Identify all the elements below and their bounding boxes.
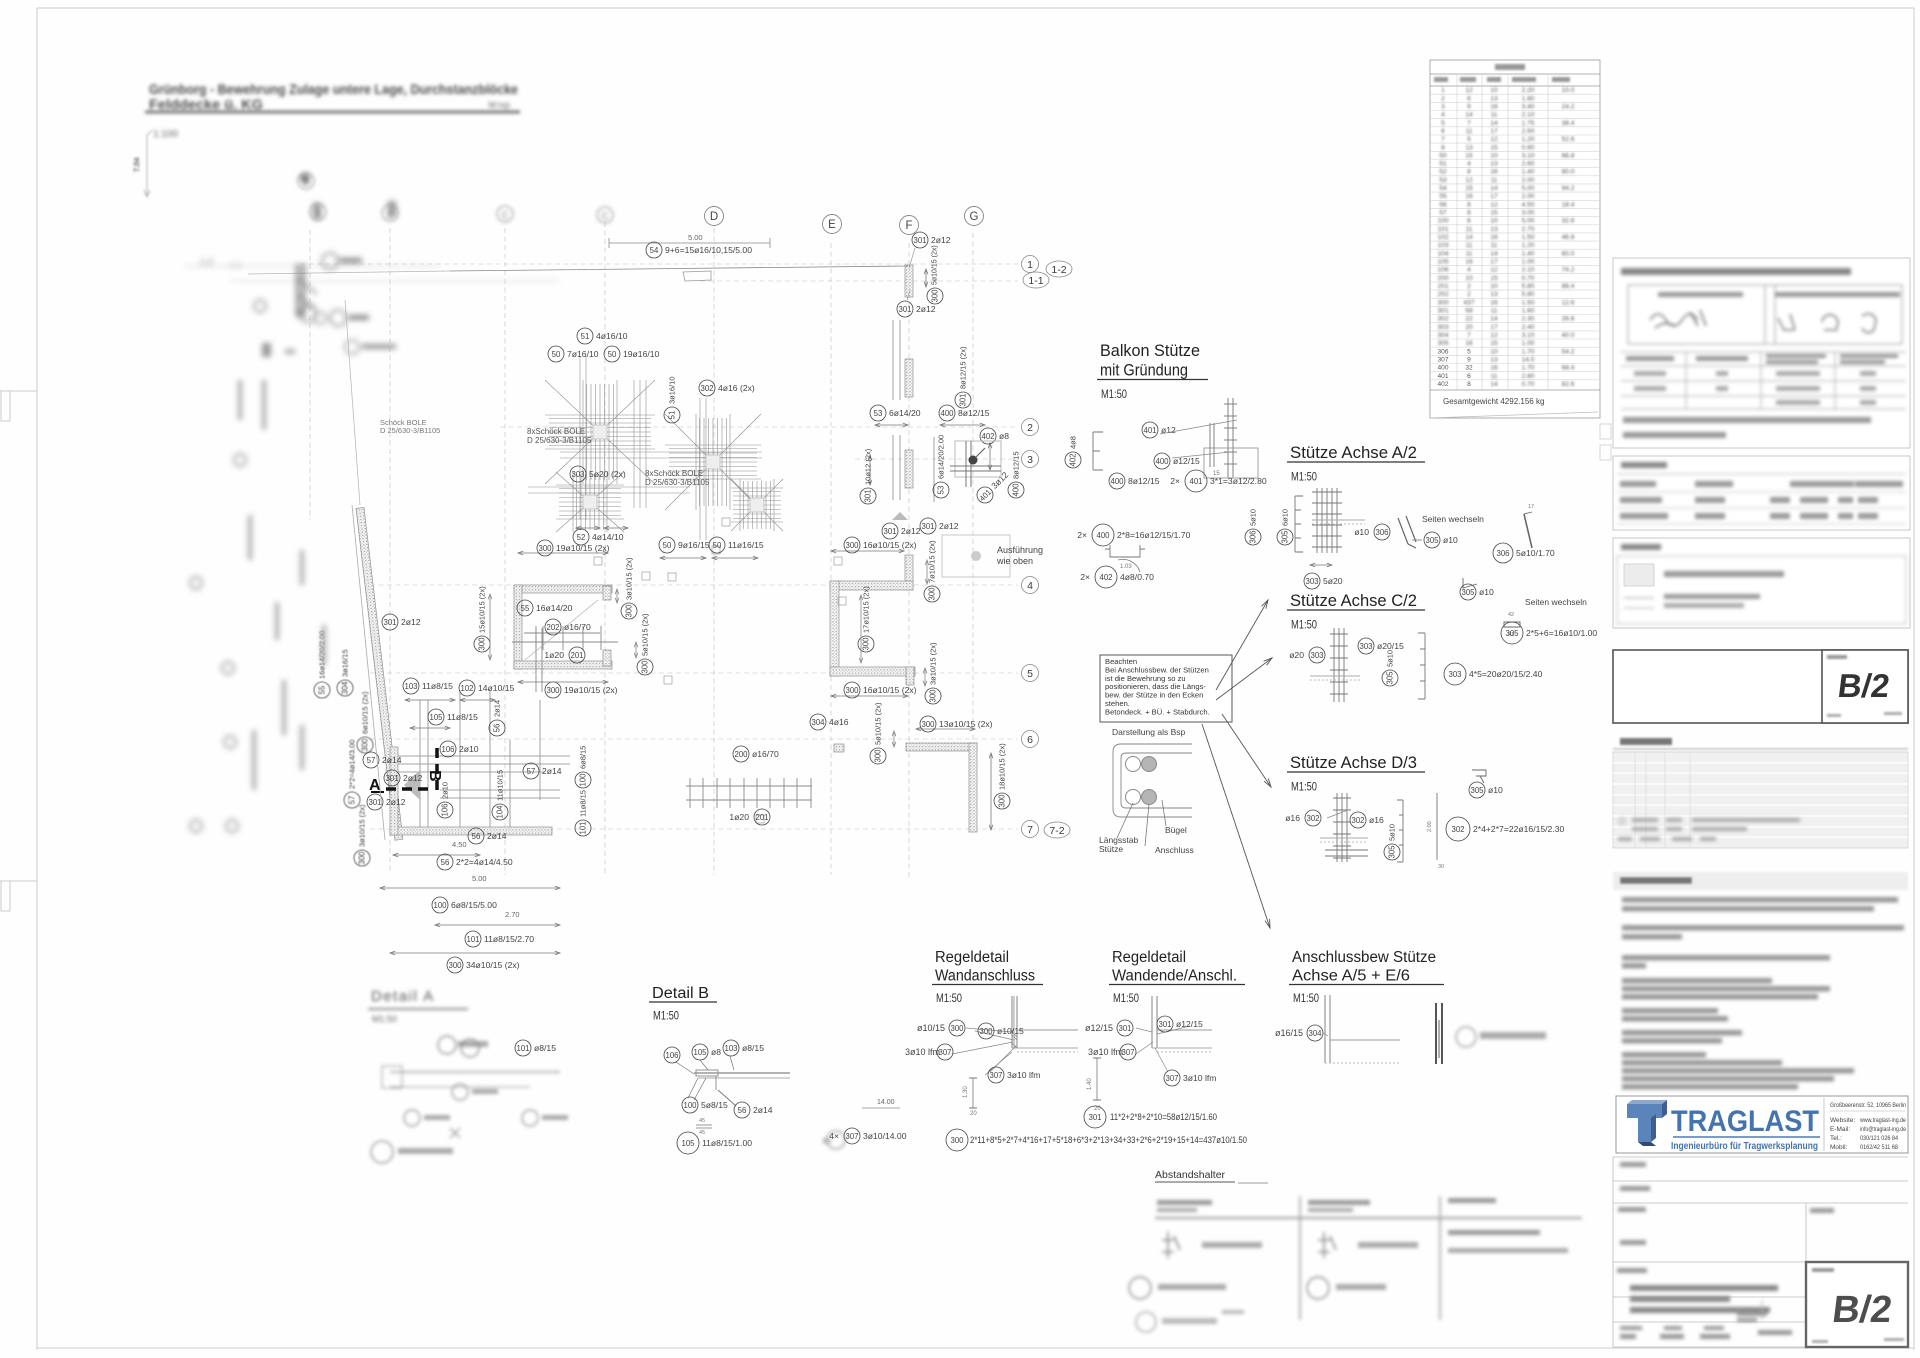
svg-text:9: 9 [1467,357,1471,364]
svg-text:400: 400 [1437,365,1448,372]
svg-text:Wandanschluss: Wandanschluss [935,968,1035,985]
svg-text:Detail A: Detail A [371,988,435,1005]
svg-text:1.00: 1.00 [1522,259,1535,266]
svg-text:14: 14 [1490,250,1498,257]
svg-text:1.70: 1.70 [1522,365,1535,372]
svg-text:5.80: 5.80 [1522,283,1535,290]
svg-text:ø8: ø8 [999,431,1009,441]
svg-text:1ø20: 1ø20 [729,812,749,822]
svg-text:300: 300 [1437,299,1448,306]
svg-text:19ø10/15 (2x): 19ø10/15 (2x) [564,685,618,695]
svg-text:1.03: 1.03 [1120,564,1132,570]
svg-text:303: 303 [1359,642,1372,651]
svg-text:16: 16 [1465,340,1473,347]
svg-text:19ø10/15 (2x): 19ø10/15 (2x) [556,543,610,553]
svg-text:106: 106 [441,745,454,754]
svg-text:16: 16 [1490,103,1498,110]
svg-text:101: 101 [466,935,479,944]
svg-text:10: 10 [1490,348,1498,355]
svg-text:105: 105 [1437,259,1448,266]
svg-text:50: 50 [1439,152,1447,159]
svg-text:302: 302 [1451,825,1464,834]
svg-text:ø8: ø8 [711,1047,721,1057]
svg-text:1.75: 1.75 [1522,120,1535,127]
svg-text:Website:: Website: [1830,1117,1855,1124]
svg-text:46.8: 46.8 [1562,234,1575,241]
svg-text:10: 10 [1490,283,1498,290]
svg-text:300: 300 [845,541,859,550]
svg-text:400: 400 [1012,483,1021,497]
svg-text:305: 305 [1505,629,1519,638]
svg-text:20: 20 [970,1111,977,1117]
svg-text:11: 11 [1491,308,1498,315]
svg-text:4ø8: 4ø8 [1069,436,1078,449]
svg-text:54.2: 54.2 [1562,348,1575,355]
svg-text:M1:50: M1:50 [1291,620,1317,632]
svg-text:8: 8 [1467,169,1471,176]
svg-text:2*4+2*7=22ø16/15/2.30: 2*4+2*7=22ø16/15/2.30 [1473,824,1564,834]
svg-text:53: 53 [937,486,946,495]
svg-text:106: 106 [665,1051,678,1060]
svg-text:305: 305 [1437,340,1448,347]
svg-text:13ø10/15 (2x): 13ø10/15 (2x) [939,719,993,729]
svg-text:15: 15 [1213,471,1220,477]
svg-text:B/2: B/2 [1830,1288,1894,1331]
svg-text:11ø8/15/1.00: 11ø8/15/1.00 [702,1138,752,1148]
svg-text:307: 307 [845,1132,858,1141]
svg-text:55: 55 [521,604,530,613]
svg-text:6ø10: 6ø10 [1281,509,1290,526]
svg-text:1.00: 1.00 [1522,340,1535,347]
svg-text:wie oben: wie oben [996,556,1033,566]
svg-text:M1:50: M1:50 [653,1011,679,1023]
svg-text:3.10: 3.10 [1522,152,1535,159]
svg-text:3ø10/15 (2x): 3ø10/15 (2x) [358,804,367,847]
svg-text:E: E [828,219,836,231]
svg-text:ø20: ø20 [1289,650,1304,660]
svg-text:400: 400 [1110,477,1124,486]
svg-text:ø16/70: ø16/70 [564,622,591,632]
svg-text:4ø16: 4ø16 [829,717,849,727]
svg-text:2ø14: 2ø14 [542,766,562,776]
svg-text:17: 17 [1490,193,1498,200]
svg-text:3*1=3ø12/2.80: 3*1=3ø12/2.80 [1210,476,1267,486]
svg-text:101: 101 [1437,226,1448,233]
svg-text:45: 45 [699,1130,705,1136]
svg-text:305: 305 [1470,786,1484,795]
svg-text:mit Gründung: mit Gründung [1100,362,1188,380]
svg-text:52.6: 52.6 [1562,136,1575,143]
svg-text:10ø12 (2x): 10ø12 (2x) [864,448,873,485]
svg-text:307: 307 [1437,357,1448,364]
svg-text:94.2: 94.2 [1562,185,1575,192]
svg-text:26.8: 26.8 [1562,316,1575,323]
svg-text:3: 3 [1441,103,1445,110]
svg-text:030/121 026 84: 030/121 026 84 [1860,1135,1898,1142]
svg-text:303: 303 [1305,577,1318,586]
svg-text:6: 6 [1027,734,1033,746]
svg-text:2*11+8*5+2*7+4*16+17+5*18+6*3+: 2*11+8*5+2*7+4*16+17+5*18+6*3+2*13+34+33… [970,1135,1247,1145]
svg-text:Abstandshalter: Abstandshalter [1155,1169,1226,1181]
svg-text:M1:50: M1:50 [1291,472,1317,484]
svg-text:14ø10/15: 14ø10/15 [478,683,515,693]
svg-text:2.40: 2.40 [1522,324,1535,331]
svg-text:5ø10/15 (2x): 5ø10/15 (2x) [932,245,939,285]
svg-text:300: 300 [862,637,871,651]
svg-text:6ø10/15 (2x): 6ø10/15 (2x) [361,691,370,734]
svg-text:TRAGLAST: TRAGLAST [1671,1105,1819,1138]
svg-text:24.2: 24.2 [1562,103,1575,110]
svg-text:16: 16 [1490,365,1498,372]
svg-text:2ø14: 2ø14 [382,755,402,765]
svg-text:Mobil:: Mobil: [1830,1144,1848,1151]
svg-text:0.70: 0.70 [1522,381,1535,388]
svg-text:18ø10/15 (2x): 18ø10/15 (2x) [998,743,1007,790]
svg-text:4ø8/0.70: 4ø8/0.70 [1120,572,1154,582]
svg-text:M1:50: M1:50 [1113,993,1139,1005]
svg-text:9: 9 [1467,103,1471,110]
svg-text:14: 14 [1490,185,1498,192]
svg-text:300: 300 [931,289,940,303]
svg-text:17: 17 [1490,324,1498,331]
svg-text:8xSchöck BOLE: 8xSchöck BOLE [527,427,585,436]
svg-text:102: 102 [460,684,473,693]
svg-text:11: 11 [1466,226,1473,233]
svg-text:15: 15 [1465,152,1473,159]
svg-text:5ø10/1.70: 5ø10/1.70 [1516,548,1555,558]
svg-text:2: 2 [1467,283,1471,290]
svg-text:Wandende/Anschl.: Wandende/Anschl. [1112,968,1237,985]
svg-text:12: 12 [1490,201,1498,208]
svg-text:1-1: 1-1 [1028,275,1043,287]
svg-text:ø8/15: ø8/15 [534,1043,556,1053]
svg-text:5.80: 5.80 [1522,291,1535,298]
svg-text:1.60: 1.60 [1522,308,1535,315]
svg-text:2.10: 2.10 [1522,112,1535,119]
svg-text:100: 100 [579,773,588,787]
svg-text:307: 307 [1165,1074,1178,1083]
svg-text:301: 301 [1437,308,1448,315]
svg-text:4: 4 [1467,161,1471,168]
svg-text:2*2=4ø14/4.50: 2*2=4ø14/4.50 [456,857,513,867]
svg-text:300: 300 [921,720,935,729]
svg-text:B: B [426,770,443,782]
svg-text:2ø10: 2ø10 [459,744,479,754]
svg-text:300: 300 [546,686,560,695]
svg-text:7: 7 [1467,120,1471,127]
svg-text:11: 11 [1466,128,1473,135]
svg-text:4: 4 [1027,580,1033,592]
svg-text:30: 30 [1438,864,1444,870]
svg-text:54: 54 [1439,185,1447,192]
svg-text:7: 7 [1467,332,1471,339]
svg-text:4ø16/10: 4ø16/10 [596,331,628,341]
svg-text:52: 52 [1439,169,1447,176]
svg-text:F: F [905,220,912,232]
svg-text:5ø8/15: 5ø8/15 [701,1100,728,1110]
svg-text:301: 301 [898,305,911,314]
svg-text:301: 301 [368,798,381,807]
svg-text:300: 300 [998,794,1007,808]
svg-text:300: 300 [538,544,552,553]
svg-text:Ausführung: Ausführung [997,545,1043,555]
svg-text:2.70: 2.70 [1522,226,1535,233]
svg-text:2.00: 2.00 [1522,193,1535,200]
svg-text:302: 302 [1437,316,1448,323]
svg-text:2ø12: 2ø12 [939,521,959,531]
svg-text:2.80: 2.80 [1522,373,1535,380]
svg-text:105: 105 [681,1139,695,1148]
svg-text:14: 14 [1490,381,1498,388]
svg-text:12: 12 [1465,87,1473,94]
svg-text:6: 6 [1467,373,1471,380]
svg-text:200: 200 [1437,275,1448,282]
svg-text:19ø16/10: 19ø16/10 [623,349,660,359]
svg-text:1.40: 1.40 [1087,1078,1093,1090]
svg-text:5: 5 [1467,136,1471,143]
svg-text:104: 104 [496,805,505,819]
svg-text:2ø14: 2ø14 [753,1105,773,1115]
svg-text:5ø10: 5ø10 [1249,509,1258,526]
svg-text:13: 13 [1490,291,1498,298]
svg-text:5ø20 (2x): 5ø20 (2x) [589,469,626,479]
svg-text:301: 301 [385,774,399,783]
svg-text:2ø10: 2ø10 [441,782,450,799]
svg-text:1.40: 1.40 [1522,250,1535,257]
svg-text:13: 13 [1465,144,1473,151]
svg-text:5.00: 5.00 [1522,185,1535,192]
svg-text:14: 14 [1465,112,1473,119]
svg-text:2: 2 [1027,422,1033,434]
svg-text:Bügel: Bügel [1165,825,1187,835]
svg-text:74.2: 74.2 [1562,267,1575,274]
svg-text:306: 306 [1437,348,1448,355]
svg-text:8ø12/15: 8ø12/15 [1128,476,1160,486]
svg-text:ø12/15: ø12/15 [1176,1019,1203,1029]
svg-text:7.54: 7.54 [132,157,141,172]
svg-text:56: 56 [493,724,502,733]
svg-text:14.0: 14.0 [1522,357,1535,364]
svg-text:53: 53 [1439,177,1447,184]
svg-text:16: 16 [1465,193,1473,200]
svg-text:8xSchöck BOLE: 8xSchöck BOLE [645,469,703,478]
svg-text:2: 2 [1441,95,1445,102]
svg-text:D: D [710,211,718,223]
svg-text:50: 50 [608,350,617,359]
svg-text:304: 304 [811,718,825,727]
svg-text:14: 14 [1490,316,1498,323]
svg-text:2.50: 2.50 [1522,128,1535,135]
svg-text:307: 307 [938,1048,951,1057]
svg-text:8: 8 [1467,201,1471,208]
svg-text:Stütze Achse C/2: Stütze Achse C/2 [1290,592,1417,610]
svg-text:302: 302 [1351,816,1364,825]
svg-text:105: 105 [693,1048,707,1057]
svg-text:Großbeerenstr. 52, 10965 Berli: Großbeerenstr. 52, 10965 Berlin [1830,1102,1906,1109]
svg-text:55: 55 [318,685,327,694]
svg-text:303: 303 [1437,324,1448,331]
svg-text:3ø10 lfm: 3ø10 lfm [1088,1047,1123,1057]
svg-text:106: 106 [441,803,450,816]
svg-text:1.40: 1.40 [1522,169,1535,176]
svg-text:1ø20: 1ø20 [544,650,564,660]
svg-text:Tel.:: Tel.: [1830,1135,1842,1142]
svg-text:2ø14: 2ø14 [487,831,507,841]
svg-text:300: 300 [358,851,367,865]
svg-text:2×: 2× [1170,476,1180,486]
svg-text:3ø10 lfm: 3ø10 lfm [1007,1070,1040,1080]
svg-text:17ø10/15 (2x): 17ø10/15 (2x) [862,586,871,633]
svg-text:15: 15 [1490,144,1498,151]
svg-text:80.0: 80.0 [1562,169,1575,176]
svg-text:ø10: ø10 [1354,527,1369,537]
svg-text:1-2: 1-2 [1051,264,1066,276]
svg-text:2.20: 2.20 [1522,87,1535,94]
svg-text:2: 2 [1467,291,1471,298]
svg-text:306: 306 [1375,528,1388,537]
svg-text:16ø10/15 (2x): 16ø10/15 (2x) [863,685,917,695]
svg-text:305: 305 [1461,588,1475,597]
svg-text:4ø14/10: 4ø14/10 [592,532,624,542]
svg-text:400: 400 [940,409,954,418]
svg-text:307: 307 [989,1071,1002,1080]
svg-text:1.20: 1.20 [1522,242,1535,249]
svg-text:53: 53 [874,409,883,418]
svg-text:10: 10 [1465,275,1473,282]
svg-text:11ø8/15: 11ø8/15 [447,712,478,722]
svg-text:Betondeck. + BÜ. + Stabdurch.: Betondeck. + BÜ. + Stabdurch. [1105,707,1210,716]
svg-text:4*5=20ø20/15/2.40: 4*5=20ø20/15/2.40 [1469,669,1543,679]
svg-text:51: 51 [1439,161,1447,168]
svg-text:14: 14 [1465,234,1473,241]
svg-text:15: 15 [1490,210,1498,217]
svg-text:7: 7 [1027,824,1033,836]
svg-text:303: 303 [571,470,584,479]
svg-text:1.70: 1.70 [1522,348,1535,355]
svg-text:2*5+6=16ø10/1.00: 2*5+6=16ø10/1.00 [1526,628,1597,638]
svg-text:10.0: 10.0 [1562,87,1575,94]
svg-text:1: 1 [1441,87,1445,94]
svg-text:16: 16 [1490,234,1498,241]
svg-text:2ø12: 2ø12 [386,797,406,807]
svg-text:13: 13 [1490,226,1498,233]
svg-text:307: 307 [1121,1048,1134,1057]
svg-text:302: 302 [1306,814,1319,823]
svg-text:2ø14: 2ø14 [493,700,502,717]
svg-text:304: 304 [1437,332,1448,339]
svg-text:12: 12 [1490,136,1498,143]
svg-text:400: 400 [1155,457,1169,466]
svg-text:C: C [502,210,509,220]
svg-text:4.50: 4.50 [1522,201,1535,208]
svg-text:301: 301 [864,489,873,502]
svg-text:M1:50: M1:50 [1291,782,1317,794]
svg-text:M1:50: M1:50 [936,993,962,1005]
svg-text:300: 300 [950,1136,964,1145]
svg-text:104: 104 [1437,250,1448,257]
svg-text:ø16: ø16 [1369,815,1384,825]
svg-text:12: 12 [1465,177,1473,184]
svg-text:38.4: 38.4 [1562,120,1575,127]
svg-text:6: 6 [1441,128,1445,135]
svg-text:5ø10: 5ø10 [1386,650,1395,667]
svg-text:B/2: B/2 [1836,668,1892,705]
svg-text:3ø10/14.00: 3ø10/14.00 [863,1131,907,1141]
svg-text:300: 300 [928,587,937,601]
svg-text:4×: 4× [822,1136,832,1146]
svg-text:306: 306 [1249,530,1258,543]
svg-text:15: 15 [1490,275,1498,282]
svg-text:2ø12: 2ø12 [401,617,421,627]
svg-text:16ø14/20: 16ø14/20 [536,603,573,613]
svg-text:301: 301 [1158,1020,1171,1029]
svg-text:305: 305 [1281,530,1290,544]
svg-text:302: 302 [700,384,713,393]
svg-text:ø10: ø10 [1479,587,1494,597]
svg-text:100: 100 [1437,218,1448,225]
svg-text:56: 56 [738,1106,747,1115]
svg-text:402: 402 [1099,573,1112,582]
svg-text:300: 300 [979,1027,993,1036]
svg-text:11ø10/15: 11ø10/15 [496,770,505,801]
svg-text:Seiten wechseln: Seiten wechseln [1525,597,1587,607]
svg-text:5ø10/15 (2x): 5ø10/15 (2x) [874,702,883,745]
svg-text:100: 100 [433,901,447,910]
svg-text:300: 300 [950,1024,964,1033]
svg-text:16ø10/15 (2x): 16ø10/15 (2x) [863,540,917,550]
svg-text:303: 303 [1448,670,1461,679]
svg-text:3: 3 [1027,454,1033,466]
svg-text:M1:50: M1:50 [1101,389,1127,401]
svg-text:1.50: 1.50 [1522,234,1535,241]
svg-text:5: 5 [1441,120,1445,127]
svg-text:5.00: 5.00 [688,233,703,242]
svg-text:8: 8 [1467,210,1471,217]
svg-text:7: 7 [1441,136,1445,143]
svg-text:57: 57 [527,767,536,776]
svg-text:18.4: 18.4 [1562,201,1575,208]
svg-text:2×: 2× [1080,572,1090,582]
svg-text:13: 13 [1490,161,1498,168]
svg-text:Anschlussbew Stütze: Anschlussbew Stütze [1292,949,1436,966]
svg-text:D 25/630-3/B1105: D 25/630-3/B1105 [380,426,440,435]
svg-text:3ø10 lfm: 3ø10 lfm [1183,1073,1216,1083]
svg-text:7ø16/10: 7ø16/10 [567,349,599,359]
svg-text:6: 6 [1467,218,1471,225]
svg-text:13: 13 [1490,95,1498,102]
svg-text:5ø10: 5ø10 [1388,824,1397,841]
svg-text:50: 50 [713,541,722,550]
svg-text:303: 303 [1310,651,1323,660]
svg-text:Darstellung als Bsp: Darstellung als Bsp [1112,727,1186,737]
svg-text:0162/42 511 68: 0162/42 511 68 [1860,1144,1898,1151]
svg-text:1.20: 1.20 [1522,136,1535,143]
svg-text:8ø12/15 (2x): 8ø12/15 (2x) [959,346,968,389]
svg-text:60.0: 60.0 [1562,250,1575,257]
svg-text:G: G [970,211,979,223]
svg-text:E-Mail:: E-Mail: [1830,1126,1850,1133]
svg-text:400: 400 [1096,531,1110,540]
svg-text:4: 4 [1441,112,1445,119]
svg-text:17: 17 [1490,128,1498,135]
svg-text:Ingenieurbüro für Tragwerkspla: Ingenieurbüro für Tragwerksplanung [1671,1141,1818,1152]
svg-text:ø8/15: ø8/15 [742,1043,764,1053]
svg-text:304: 304 [1308,1029,1322,1038]
svg-text:M1:50: M1:50 [372,1014,397,1024]
svg-text:4: 4 [1467,267,1471,274]
svg-text:2.00: 2.00 [1427,821,1433,832]
svg-text:2.10: 2.10 [1522,267,1535,274]
